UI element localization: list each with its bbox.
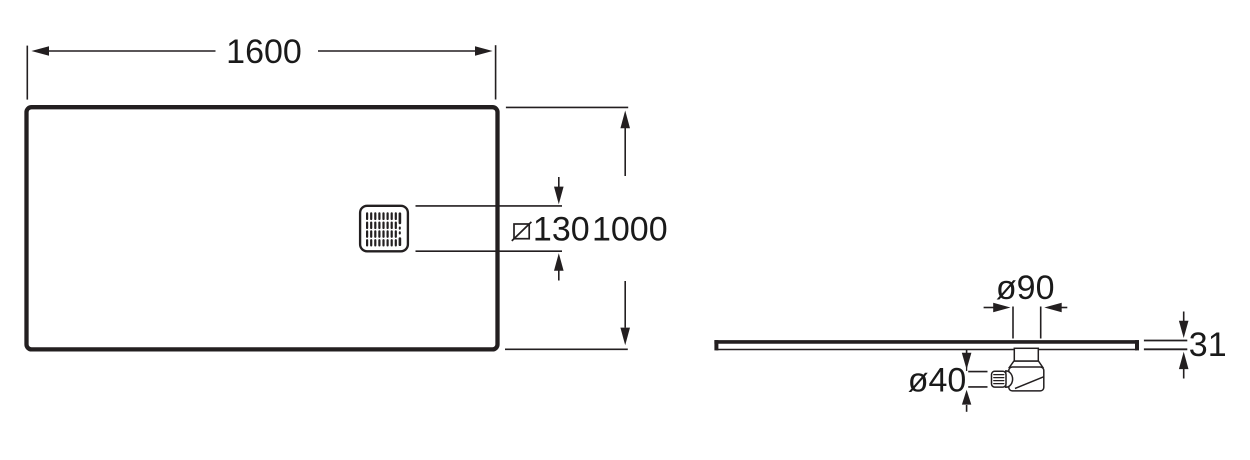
dim 31 extension line bottom (1144, 348, 1187, 350)
drain grate slots (366, 212, 401, 246)
dim 1600 extension line right (495, 45, 497, 99)
dim 1000 arrow up (620, 111, 630, 177)
svg-text:ø40: ø40 (908, 361, 967, 399)
drain trap body (1009, 367, 1044, 391)
tray side-view top edge (714, 340, 1139, 344)
dim 31 arrow down (1179, 312, 1189, 339)
drain trap flare (1010, 361, 1043, 367)
dim 31 extension line top (1144, 340, 1187, 342)
drain trap ribbed connector (992, 371, 1007, 387)
dim o40 extension line top (968, 371, 987, 373)
dim 130 arrow up (554, 253, 564, 280)
dim 31 arrow up (1179, 352, 1189, 379)
dim 1000 extension line bottom (505, 348, 628, 350)
drain trap neck (1014, 348, 1038, 361)
dim 1600 arrow left (31, 46, 215, 55)
dim o90 extension line right (1040, 307, 1042, 339)
dim o90 arrow left (984, 303, 1011, 312)
dim 130 arrow down (554, 177, 564, 204)
dim o40 arrow up (962, 390, 971, 412)
tray side-view left end cap (714, 340, 718, 350)
svg-text:1000: 1000 (592, 211, 668, 249)
tray top-view outline (27, 107, 498, 349)
square-drain symbol (512, 222, 532, 241)
dim 130 label (533, 211, 590, 249)
dim 1000 label (592, 211, 668, 249)
dim 130 leader line top (416, 205, 563, 207)
tray side-view right end cap (1135, 340, 1139, 350)
dim o40 label (908, 361, 967, 399)
dim o40 extension line bottom (968, 386, 987, 388)
dim 1600 extension line left (26, 46, 28, 100)
dim o90 arrow right (1044, 303, 1067, 312)
svg-text:ø90: ø90 (996, 269, 1055, 307)
svg-text:130: 130 (533, 211, 590, 249)
svg-text:31: 31 (1189, 326, 1227, 364)
dim o40 arrow down (962, 350, 972, 371)
svg-text:1600: 1600 (226, 33, 302, 71)
tray side-view bottom edge (716, 349, 1137, 351)
drain trap nut cap (1006, 371, 1013, 387)
dim o90 label (996, 269, 1055, 307)
dim 1000 extension line top (506, 106, 628, 108)
dim 130 leader line bottom (416, 250, 563, 252)
dim 31 label (1189, 326, 1227, 364)
dim 1600 label (226, 33, 302, 71)
dim o90 extension line left (1012, 307, 1014, 339)
dim 1600 arrow right (318, 46, 493, 55)
drain grate square (360, 206, 408, 252)
dim 1000 arrow down (620, 281, 630, 345)
